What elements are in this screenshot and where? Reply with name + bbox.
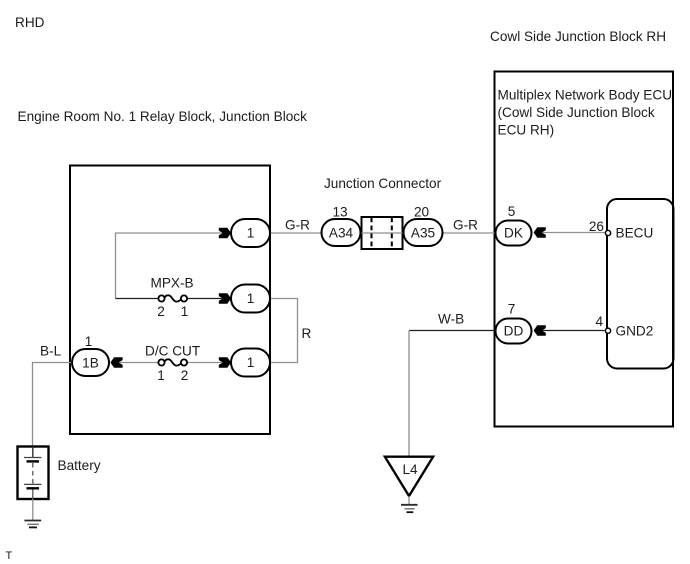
connector 1 (D/C CUT row) (231, 349, 270, 377)
ECU internal block (BECU/GND2) (607, 199, 674, 369)
svg-text:Engine Room No. 1 Relay Block,: Engine Room No. 1 Relay Block, Junction … (18, 109, 308, 124)
svg-text:W-B: W-B (438, 312, 464, 327)
svg-text:5: 5 (508, 204, 516, 219)
svg-text:4: 4 (595, 314, 603, 329)
node 4 GND2 (605, 328, 610, 333)
wire to ground L4 (408, 331, 410, 458)
svg-text:RHD: RHD (15, 15, 45, 30)
svg-text:Cowl Side Junction Block RH: Cowl Side Junction Block RH (490, 29, 666, 44)
wire B-L from 1B to battery (33, 363, 73, 447)
svg-text:D/C CUT: D/C CUT (145, 344, 200, 359)
wire MPX-B row (black) (116, 298, 159, 300)
wire row1 inside relay block (to connector 1) (116, 233, 224, 299)
junction connector dashed pin line 1 (371, 218, 373, 249)
svg-text:G-R: G-R (453, 218, 478, 233)
svg-text:20: 20 (414, 205, 430, 220)
connector A35 (404, 219, 443, 246)
connector A34 (322, 219, 361, 246)
connector DD (496, 319, 532, 344)
wire D/C CUT row (119, 362, 158, 364)
connector 1B (72, 349, 109, 376)
svg-text:2: 2 (157, 304, 165, 319)
svg-text:A34: A34 (329, 226, 354, 241)
svg-text:1B: 1B (82, 356, 99, 371)
svg-text:7: 7 (508, 302, 516, 317)
wire G-R from relay block to ECU (270, 232, 496, 234)
svg-text:A35: A35 (411, 226, 435, 241)
connector DK (496, 221, 532, 246)
ground below L4 (401, 505, 418, 512)
svg-text:1: 1 (247, 291, 255, 306)
wire W-B horizontal (black) (409, 330, 496, 332)
svg-text:R: R (302, 326, 312, 341)
svg-text:26: 26 (589, 219, 604, 234)
arrow into connector 1 row1 (219, 228, 231, 238)
svg-text:Battery: Battery (58, 458, 101, 473)
svg-text:13: 13 (332, 205, 347, 220)
shield ground L4 (385, 457, 433, 496)
block Cowl Side Junction Block RH (ECU box) (495, 72, 674, 427)
block Engine Room No. 1 Relay Block (70, 166, 270, 435)
wire R loop between connectors 1 (270, 299, 298, 363)
svg-text:1: 1 (157, 368, 165, 383)
arrow into connector 1 D/C CUT row (219, 357, 231, 367)
arrow into DD (534, 325, 546, 335)
wire DK to BECU node (542, 232, 606, 234)
svg-text:1: 1 (247, 226, 255, 241)
wire through junction connector (361, 232, 404, 234)
svg-text:B-L: B-L (40, 344, 62, 359)
wire DD to GND2 node (black) (542, 330, 605, 332)
fuse D/C CUT (158, 359, 187, 365)
arrow into DK (534, 227, 546, 237)
arrow into connector 1 MPX-B row (219, 293, 231, 303)
svg-text:MPX-B: MPX-B (151, 276, 194, 291)
svg-text:G-R: G-R (285, 218, 310, 233)
wire battery to ground (32, 499, 34, 520)
svg-text:1: 1 (247, 355, 255, 370)
svg-text:DK: DK (504, 226, 523, 241)
svg-text:ECU RH): ECU RH) (498, 123, 555, 138)
svg-text:1: 1 (181, 304, 189, 319)
svg-text:1: 1 (85, 334, 93, 349)
battery (18, 447, 49, 500)
junction connector box (362, 217, 403, 249)
fuse MPX-B (158, 295, 187, 301)
svg-text:BECU: BECU (616, 226, 654, 241)
arrow into 1B (110, 357, 122, 367)
svg-text:Multiplex Network Body ECU: Multiplex Network Body ECU (498, 88, 673, 103)
svg-text:L4: L4 (403, 462, 419, 477)
svg-text:2: 2 (181, 368, 189, 383)
svg-text:T: T (6, 550, 13, 562)
node 26 BECU (605, 230, 610, 235)
svg-text:GND2: GND2 (616, 324, 654, 339)
connector 1 (row1, G-R) (231, 219, 270, 247)
ground below battery (24, 521, 41, 528)
junction connector dashed pin line 2 (391, 218, 393, 249)
svg-text:(Cowl Side Junction Block: (Cowl Side Junction Block (498, 105, 655, 120)
connector 1 (MPX-B row) (231, 285, 270, 313)
svg-text:Junction Connector: Junction Connector (324, 176, 442, 191)
svg-text:DD: DD (504, 324, 524, 339)
wire L4 to ground (408, 496, 410, 504)
